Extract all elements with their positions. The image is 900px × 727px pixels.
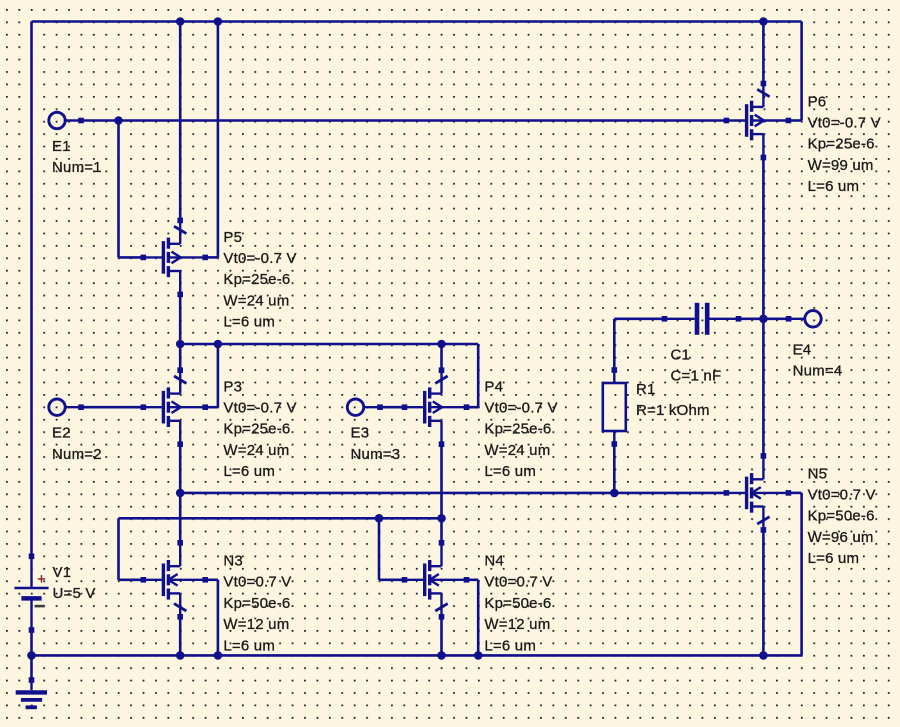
label P3 xyxy=(223,378,296,480)
wire N4 bulk lead xyxy=(467,578,479,581)
wire E1 branch down to P5 gate xyxy=(117,121,120,258)
wire N3 gate riser xyxy=(117,518,120,580)
junction P3/N3 drain node xyxy=(176,489,185,498)
svg-text:P6: P6 xyxy=(808,93,827,110)
svg-text:P5: P5 xyxy=(223,229,242,246)
wire N3 bulk down xyxy=(217,580,220,656)
pin P3 gate xyxy=(141,404,147,410)
wire N3 drain up xyxy=(179,493,182,543)
label P4 xyxy=(484,378,557,480)
junction VDD-P5 bulk xyxy=(214,17,223,26)
svg-text:Num=1: Num=1 xyxy=(52,159,102,176)
resistor R1 xyxy=(603,370,626,444)
junction E1 branch xyxy=(114,116,123,125)
svg-text:L=6 um: L=6 um xyxy=(484,463,536,480)
svg-text:C1: C1 xyxy=(671,346,691,363)
label P5 xyxy=(223,229,296,331)
svg-text:Kp=50e-6: Kp=50e-6 xyxy=(484,595,551,612)
pin C1 left xyxy=(662,316,668,322)
svg-text:W=96 um: W=96 um xyxy=(808,529,874,546)
svg-text:Vt0=-0.7 V: Vt0=-0.7 V xyxy=(223,250,296,267)
wire to N4 gate xyxy=(379,578,405,581)
wire P3 bulk lead xyxy=(205,406,218,409)
pin N5 gate xyxy=(724,490,730,496)
pin P6 source xyxy=(761,81,767,87)
port E3 xyxy=(347,399,380,415)
junction GND-N3 source xyxy=(176,651,185,660)
ground xyxy=(16,680,47,707)
svg-text:W=24 um: W=24 um xyxy=(223,292,289,309)
pin P5 gate xyxy=(141,255,147,261)
wire E3 to P4 gate xyxy=(380,406,405,409)
transistor P4 xyxy=(405,370,467,444)
pin P5 source xyxy=(177,218,183,224)
wire P3 drain down xyxy=(179,444,182,493)
wire GND rail to ground symbol xyxy=(30,655,33,680)
V1 minus sign xyxy=(35,605,45,608)
transistor N5 xyxy=(726,456,788,530)
pin C1 right xyxy=(736,316,742,322)
svg-text:Vt0=0.7 V: Vt0=0.7 V xyxy=(808,487,876,504)
label N4 xyxy=(484,553,552,655)
svg-text:W=24 um: W=24 um xyxy=(484,442,550,459)
wire P4 bulk up xyxy=(477,344,480,407)
svg-text:Kp=25e-6: Kp=25e-6 xyxy=(223,271,290,288)
port E4 xyxy=(789,311,822,327)
wire P3/P4 source rail xyxy=(180,343,478,346)
junction tail node P5 drain xyxy=(176,340,185,349)
junction N4 diode node xyxy=(437,514,446,523)
junction GND-N4 source xyxy=(437,651,446,660)
pin V1 plus xyxy=(29,554,35,560)
svg-text:N5: N5 xyxy=(808,465,828,482)
pin R1 top xyxy=(612,367,618,373)
svg-text:W=24 um: W=24 um xyxy=(223,442,289,459)
svg-text:P3: P3 xyxy=(223,378,242,395)
pin P5 bulk xyxy=(202,255,208,261)
label P6 xyxy=(808,93,881,195)
wire output node to N5 drain xyxy=(762,319,765,456)
label E3 xyxy=(351,425,401,463)
svg-text:Num=4: Num=4 xyxy=(793,363,843,380)
wire N5 bulk lead xyxy=(788,492,801,495)
pin N5 bulk xyxy=(786,490,792,496)
svg-text:Vt0=-0.7 V: Vt0=-0.7 V xyxy=(223,400,296,417)
wire C1 left wire xyxy=(614,317,664,320)
pin P4 source xyxy=(439,367,445,373)
wire P6 source to VDD xyxy=(762,22,765,84)
pin P3 source xyxy=(177,367,183,373)
svg-text:L=6 um: L=6 um xyxy=(223,314,275,331)
wire VDD left rail xyxy=(30,22,33,557)
junction VDD-P6 source xyxy=(759,17,768,26)
dc source V1 xyxy=(14,556,48,630)
junction GND-V1 xyxy=(27,651,36,660)
transistor P6 xyxy=(726,84,788,158)
wire R1 top riser xyxy=(613,319,616,370)
svg-text:L=6 um: L=6 um xyxy=(808,178,860,195)
junction output node xyxy=(759,315,768,324)
wire E4 wire xyxy=(763,317,788,320)
junction GND-N3 bulk xyxy=(214,651,223,660)
pin V1 minus xyxy=(29,627,35,633)
svg-text:Num=3: Num=3 xyxy=(351,446,401,463)
pin P6 drain xyxy=(761,155,767,161)
pin R1 bottom xyxy=(612,441,618,447)
wire P3 source xyxy=(179,344,182,370)
svg-text:E1: E1 xyxy=(52,138,71,155)
pin P6 bulk xyxy=(786,118,792,124)
svg-text:Vt0=-0.7 V: Vt0=-0.7 V xyxy=(808,115,881,132)
pin E1 port xyxy=(78,118,84,124)
junction VDD-P5 source xyxy=(176,17,185,26)
label V1 xyxy=(53,564,96,602)
pin E3 port xyxy=(377,404,383,410)
pin P4 drain xyxy=(439,441,445,447)
svg-text:E3: E3 xyxy=(351,425,370,442)
wire right bottom vertical (N5 bulk to GND) xyxy=(800,493,803,656)
pin P3 drain xyxy=(177,441,183,447)
wire N4 drain up xyxy=(440,518,443,543)
pin N4 gate xyxy=(402,577,408,583)
wire N4 gate riser xyxy=(378,518,381,580)
junction R1 at stage1 rail xyxy=(610,489,619,498)
wire P6 drain to output node xyxy=(762,158,765,319)
svg-text:Kp=50e-6: Kp=50e-6 xyxy=(808,508,875,525)
svg-text:R1: R1 xyxy=(636,381,656,398)
label N5 xyxy=(808,465,876,567)
svg-text:W=12 um: W=12 um xyxy=(484,616,550,633)
transistor N4 xyxy=(405,543,467,617)
wire GND bottom rail xyxy=(32,654,802,657)
junction GND-N4 bulk xyxy=(474,651,483,660)
svg-text:V1: V1 xyxy=(53,564,72,581)
wire P5 bulk lead xyxy=(205,256,218,259)
pin ground pin xyxy=(29,677,35,683)
wire to P5 gate xyxy=(119,256,144,259)
pin P6 gate xyxy=(724,118,730,124)
pin P5 drain xyxy=(177,292,183,298)
pin N4 source xyxy=(439,614,445,620)
transistor P5 xyxy=(143,220,205,294)
wire stage1 out rail xyxy=(180,492,726,495)
pin N4 bulk xyxy=(464,577,470,583)
junction N4 gate tap xyxy=(375,514,384,523)
label R1 xyxy=(636,381,710,419)
wire V1 bottom to GND rail xyxy=(30,630,33,655)
svg-text:Vt0=0.7 V: Vt0=0.7 V xyxy=(484,574,552,591)
pin P3 bulk xyxy=(202,404,208,410)
pin N5 source xyxy=(761,527,767,533)
svg-text:L=6 um: L=6 um xyxy=(484,637,536,654)
wire N5 source to GND xyxy=(762,530,765,656)
junction P3 bulk at rail xyxy=(214,340,223,349)
label E1 xyxy=(52,138,102,176)
svg-text:L=6 um: L=6 um xyxy=(223,463,275,480)
port E2 xyxy=(49,399,82,415)
wire VDD top rail xyxy=(32,20,802,23)
pin E4 port xyxy=(786,316,792,322)
svg-text:Num=2: Num=2 xyxy=(52,446,102,463)
wire P4 drain down xyxy=(440,444,443,518)
junction GND-N5 source xyxy=(759,651,768,660)
svg-text:N4: N4 xyxy=(484,553,504,570)
pin N3 gate xyxy=(141,577,147,583)
label N3 xyxy=(223,553,291,655)
wire P3 bulk up xyxy=(217,344,220,407)
svg-text:U=5 V: U=5 V xyxy=(53,585,96,602)
pin P4 gate xyxy=(402,404,408,410)
wire P4 source xyxy=(440,344,443,370)
port E1 xyxy=(49,112,82,128)
wire E1 to P6 gate xyxy=(81,119,726,122)
svg-text:+: + xyxy=(37,572,46,588)
wire mirror gate rail xyxy=(119,517,442,520)
wire N3 bulk lead xyxy=(205,578,218,581)
wire to N3 gate xyxy=(119,578,144,581)
svg-text:Vt0=0.7 V: Vt0=0.7 V xyxy=(223,574,291,591)
svg-text:W=12 um: W=12 um xyxy=(223,616,289,633)
capacitor C1 xyxy=(665,303,739,335)
svg-text:Kp=25e-6: Kp=25e-6 xyxy=(808,136,875,153)
svg-text:Vt0=-0.7 V: Vt0=-0.7 V xyxy=(484,400,557,417)
svg-text:Kp=25e-6: Kp=25e-6 xyxy=(223,421,290,438)
wire N4 source to GND xyxy=(440,617,443,656)
pin E2 port xyxy=(78,404,84,410)
wire C1 right wire xyxy=(739,317,764,320)
svg-text:W=99 um: W=99 um xyxy=(808,157,874,174)
wire R1 bottom riser xyxy=(613,444,616,493)
pin N5 drain xyxy=(761,453,767,459)
label C1 xyxy=(671,346,722,384)
label E2 xyxy=(52,425,102,463)
pin N4 drain xyxy=(439,540,445,546)
pin P4 bulk xyxy=(464,404,470,410)
pin N3 bulk xyxy=(202,577,208,583)
svg-text:E4: E4 xyxy=(793,341,812,358)
svg-text:E2: E2 xyxy=(52,425,71,442)
svg-text:R=1 kOhm: R=1 kOhm xyxy=(636,402,710,419)
wire N3 source to GND xyxy=(179,617,182,656)
svg-text:C=1 nF: C=1 nF xyxy=(671,368,722,385)
svg-text:L=6 um: L=6 um xyxy=(223,637,275,654)
svg-text:Kp=25e-6: Kp=25e-6 xyxy=(484,421,551,438)
svg-text:L=6 um: L=6 um xyxy=(808,550,860,567)
wire right top vertical (P6 bulk to VDD) xyxy=(800,22,803,121)
pin N3 source xyxy=(177,614,183,620)
wire E2 to P3 gate xyxy=(81,406,143,409)
transistor N3 xyxy=(143,543,205,617)
wire P5 drain down xyxy=(179,294,182,344)
transistor P3 xyxy=(143,370,205,444)
pin N3 drain xyxy=(177,540,183,546)
label E4 xyxy=(793,341,843,379)
svg-text:Kp=50e-6: Kp=50e-6 xyxy=(223,595,290,612)
svg-text:P4: P4 xyxy=(484,378,503,395)
wire P5 bulk to VDD xyxy=(217,22,220,258)
wire N4 bulk down xyxy=(477,580,480,656)
wire P5 source to VDD xyxy=(179,22,182,221)
junction P4 source at rail xyxy=(437,340,446,349)
svg-text:N3: N3 xyxy=(223,553,243,570)
wire P4 bulk lead xyxy=(467,406,479,409)
wire P6 bulk lead xyxy=(788,119,801,122)
